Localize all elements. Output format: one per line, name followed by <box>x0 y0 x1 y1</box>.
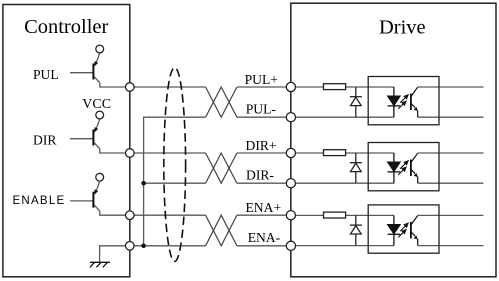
svg-text:ENA-: ENA- <box>248 230 281 245</box>
svg-text:VCC: VCC <box>82 97 111 112</box>
svg-text:PUL+: PUL+ <box>245 72 278 87</box>
svg-text:ENA+: ENA+ <box>246 200 282 215</box>
svg-text:DIR-: DIR- <box>246 168 274 183</box>
svg-text:DIR: DIR <box>33 132 57 147</box>
svg-text:PUL-: PUL- <box>246 101 277 116</box>
svg-text:Drive: Drive <box>379 17 426 39</box>
svg-text:Controller: Controller <box>24 16 108 38</box>
svg-text:PUL: PUL <box>33 67 59 82</box>
svg-text:DIR+: DIR+ <box>246 138 277 153</box>
svg-text:ENABLE: ENABLE <box>13 195 66 207</box>
